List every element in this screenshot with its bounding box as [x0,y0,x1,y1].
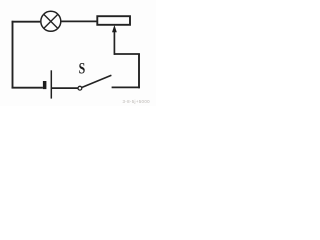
battery G1 negative plate (short thick) [43,81,47,89]
wire bottom-left horizontal [12,87,43,89]
rheostat slider arrowhead [112,25,117,32]
wire right vertical [138,54,140,89]
resistor R (rheostat body) [97,16,130,25]
lamp L1 cross stroke 1 [44,14,58,28]
svg-text:S: S [79,60,86,77]
battery G1 positive plate (long thin) [50,70,52,98]
lamp L1 circle [41,11,61,31]
wire left vertical [12,21,14,89]
wire top-left horizontal [12,21,41,23]
wire rheostat slider stem [113,30,115,55]
wire jog horizontal under rheostat [114,53,140,55]
wire battery to switch [52,87,78,89]
wire lamp to rheostat [61,20,97,22]
lamp L1 cross stroke 2 [44,14,58,28]
wire bottom-right horizontal [112,86,140,88]
switch S pivot circle [78,86,82,90]
switch S blade (open) [82,75,111,87]
svg-text:3-8-5j+5000: 3-8-5j+5000 [123,99,151,104]
